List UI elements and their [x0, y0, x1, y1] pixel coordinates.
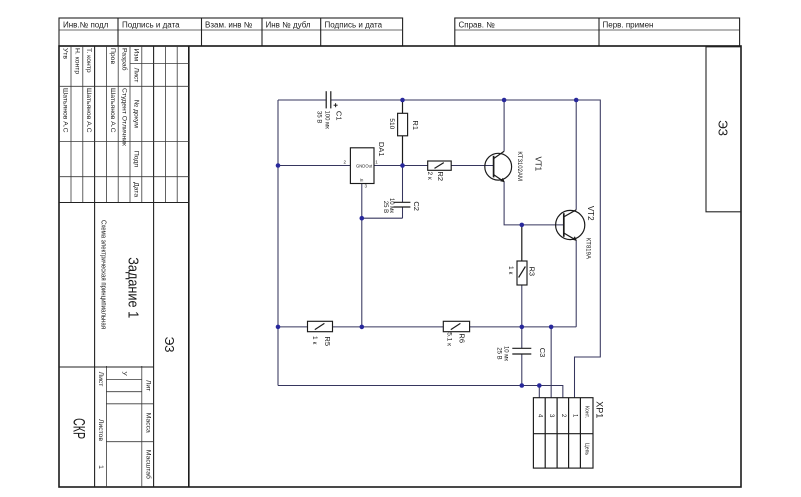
- svg-text:Инв № дубл: Инв № дубл: [266, 21, 311, 30]
- svg-text:Листов: Листов: [97, 419, 104, 441]
- svg-text:КТ3102АМ: КТ3102АМ: [516, 151, 522, 181]
- wire VT2 collector: [575, 100, 577, 210]
- svg-text:Задание 1: Задание 1: [125, 257, 141, 318]
- title block texts (rotated): [62, 48, 153, 479]
- svg-text:25 В: 25 В: [495, 347, 501, 359]
- connector XP1: [533, 398, 593, 468]
- junction C3/bottom rail: [520, 383, 525, 388]
- wire top rail: [278, 99, 326, 101]
- svg-text:Дата: Дата: [133, 182, 140, 197]
- wire VT2 emitter down: [575, 240, 577, 327]
- svg-text:Справ. №: Справ. №: [459, 21, 496, 30]
- wire C3 branch: [521, 327, 523, 348]
- svg-text:1: 1: [97, 465, 104, 469]
- junction R3/VT2 base: [520, 223, 525, 228]
- svg-text:10 мк: 10 мк: [502, 346, 508, 361]
- svg-text:Лист: Лист: [133, 68, 140, 83]
- junction VT1 collector/top rail: [502, 98, 507, 103]
- svg-text:Цепь: Цепь: [584, 443, 590, 456]
- transistor VT2: [556, 210, 585, 241]
- svg-text:Лит: Лит: [144, 380, 151, 391]
- svg-text:Подпись и дата: Подпись и дата: [122, 21, 180, 30]
- svg-text:Т. контр: Т. контр: [85, 48, 92, 73]
- resistor R5: [308, 321, 333, 331]
- wire R1 leads: [402, 100, 404, 113]
- svg-text:Шатьянов А.С: Шатьянов А.С: [85, 88, 92, 133]
- regulator DA1: [343, 148, 378, 189]
- wire DA1 output: [374, 165, 428, 167]
- svg-text:Н. контр: Н. контр: [73, 48, 80, 74]
- row lines, signature part: [176, 46, 178, 203]
- svg-text:Лист: Лист: [97, 372, 104, 387]
- wire DA1 input: [278, 165, 350, 167]
- svg-text:R5: R5: [323, 336, 332, 346]
- capacitor C1: [326, 91, 337, 108]
- svg-text:VT1: VT1: [534, 156, 543, 171]
- svg-text:ЭЗ: ЭЗ: [162, 337, 177, 353]
- svg-text:Инв.№ подл: Инв.№ подл: [63, 21, 109, 30]
- svg-text:2 к: 2 к: [426, 171, 433, 179]
- svg-text:Утв: Утв: [62, 48, 69, 59]
- svg-text:5.1 к: 5.1 к: [445, 332, 452, 346]
- svg-text:100 мк: 100 мк: [323, 110, 329, 129]
- svg-text:ХР1: ХР1: [594, 401, 604, 418]
- svg-text:Перв. примен: Перв. примен: [603, 21, 654, 30]
- resistor R1: [398, 113, 408, 136]
- designation box top-right: [706, 47, 741, 212]
- svg-text:Масштаб: Масштаб: [144, 450, 152, 479]
- svg-text:R6: R6: [458, 333, 467, 343]
- svg-text:Подп: Подп: [133, 151, 140, 167]
- svg-text:VT2: VT2: [586, 206, 595, 221]
- svg-text:Подпись и дата: Подпись и дата: [325, 21, 383, 30]
- main outline lines: [188, 46, 190, 487]
- strip left group box: [59, 18, 403, 46]
- column lines (horizontal in this view): [130, 63, 189, 65]
- svg-text:Шатьянов А.С: Шатьянов А.С: [62, 88, 69, 133]
- capacitor C3: [512, 348, 531, 354]
- svg-text:35 В: 35 В: [315, 111, 321, 123]
- junction R1/C2/DA1 output: [400, 163, 405, 168]
- junction R1/top rail: [400, 98, 405, 103]
- wire VT1 collector: [503, 100, 505, 151]
- svg-text:DA1: DA1: [377, 142, 386, 157]
- wire top right to XP1 pin1: [575, 100, 601, 398]
- resistor R6: [443, 321, 469, 331]
- svg-text:Студент Отличник: Студент Отличник: [121, 88, 128, 146]
- junction C2 return/DA1 pin3: [360, 216, 365, 221]
- svg-text:ЭЗ: ЭЗ: [716, 120, 731, 136]
- svg-text:Взам. инв №: Взам. инв №: [205, 21, 253, 30]
- wire DA1 pin3 down: [361, 184, 363, 327]
- svg-text:Масса: Масса: [144, 413, 151, 433]
- svg-text:R3: R3: [527, 267, 536, 277]
- svg-text:№ докум: № докум: [133, 100, 140, 128]
- svg-text:R1: R1: [411, 120, 420, 130]
- wire XP1 pin3: [550, 327, 552, 398]
- wire R3 leads: [521, 225, 523, 261]
- svg-text:C3: C3: [538, 348, 547, 358]
- junction left rail/mid rail: [276, 325, 281, 330]
- svg-text:У: У: [121, 371, 128, 376]
- strip right group box: [455, 18, 740, 46]
- svg-text:Конт.: Конт.: [584, 406, 590, 418]
- wire VT1 emitter to VT2 base: [504, 182, 564, 225]
- right part row lines: [141, 366, 143, 487]
- capacitor C2: [394, 202, 411, 207]
- junction VT2 collector/top rail: [574, 98, 579, 103]
- junction DA1 pin3/mid rail: [360, 325, 365, 330]
- svg-text:Пров: Пров: [109, 48, 116, 64]
- svg-text:R2: R2: [436, 171, 445, 181]
- svg-text:1 к: 1 к: [311, 336, 318, 344]
- junction R3/C3/mid rail: [520, 325, 525, 330]
- svg-text:510: 510: [388, 118, 395, 129]
- svg-text:Шатьянов А.С: Шатьянов А.С: [109, 88, 116, 133]
- svg-text:КТ819А: КТ819А: [585, 238, 591, 259]
- svg-text:Схема электрическая принципиал: Схема электрическая принципиальная: [100, 220, 107, 329]
- svg-text:C1: C1: [335, 111, 344, 121]
- wire bottom rail: [278, 386, 563, 398]
- svg-text:10 мк: 10 мк: [388, 198, 394, 213]
- svg-text:Разраб: Разраб: [121, 48, 129, 71]
- resistor R2: [428, 161, 452, 170]
- wire R2 to VT1 base: [451, 165, 493, 167]
- resistor R3: [517, 261, 527, 285]
- wire XP1 pin4: [538, 386, 540, 398]
- wire C2 branch: [402, 166, 404, 203]
- svg-text:СКР: СКР: [69, 418, 88, 439]
- junction DA1 input/left rail: [276, 163, 281, 168]
- svg-text:1 к: 1 к: [507, 266, 514, 274]
- svg-text:C2: C2: [412, 201, 421, 211]
- svg-text:25 В: 25 В: [382, 201, 388, 213]
- svg-text:GND: GND: [356, 163, 365, 168]
- svg-text:Out: Out: [365, 163, 373, 168]
- wire mid rail: [278, 326, 308, 328]
- junction XP1 pin4/bottom rail: [537, 383, 542, 388]
- wire left rail: [277, 100, 279, 386]
- junction XP1 pin3/mid rail: [549, 325, 554, 330]
- transistor VT1: [485, 151, 512, 182]
- svg-text:Изм: Изм: [133, 48, 140, 61]
